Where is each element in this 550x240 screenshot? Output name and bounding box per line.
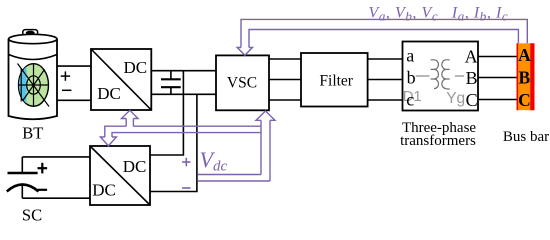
svg-text:Yg: Yg — [446, 90, 465, 107]
svg-text:c: c — [406, 90, 414, 110]
svg-text:C: C — [466, 90, 478, 110]
svg-text:VSC: VSC — [227, 75, 257, 92]
svg-text:Filter: Filter — [319, 73, 353, 90]
svg-text:DC: DC — [97, 84, 121, 103]
svg-text:Va, Vb, Vc Ia, Ib, Ic: Va, Vb, Vc Ia, Ib, Ic — [369, 5, 509, 24]
svg-text:SC: SC — [22, 206, 42, 225]
svg-text:BT: BT — [22, 124, 43, 143]
svg-text:a: a — [406, 45, 414, 65]
svg-text:DC: DC — [123, 58, 147, 77]
svg-text:A: A — [465, 46, 478, 66]
svg-text:Vdc: Vdc — [200, 147, 228, 175]
svg-text:A: A — [518, 45, 531, 65]
svg-text:DC: DC — [123, 157, 147, 176]
svg-text:b: b — [407, 67, 416, 87]
svg-text:Bus bar: Bus bar — [503, 129, 549, 145]
svg-text:transformers: transformers — [400, 133, 476, 149]
svg-text:B: B — [519, 68, 531, 88]
svg-text:DC: DC — [92, 180, 116, 199]
svg-text:C: C — [518, 90, 531, 110]
svg-text:B: B — [466, 68, 478, 88]
